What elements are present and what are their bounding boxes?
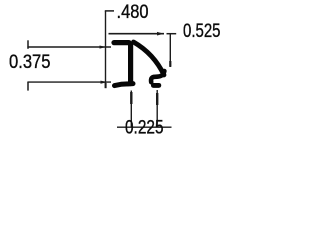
svg-text:0.525: 0.525 <box>183 21 221 42</box>
0.375 bottom dimension line <box>27 81 111 83</box>
extension line bottom right <box>156 90 158 127</box>
0.375 top tick <box>27 40 29 49</box>
bottom dimension line <box>117 126 172 128</box>
profile: hook foot <box>153 83 158 88</box>
profile: top flange <box>114 40 129 45</box>
svg-text:.480: .480 <box>117 2 149 23</box>
leader tail end <box>105 83 107 88</box>
leader line for .480 dimension <box>105 11 114 88</box>
0.375 top dimension line <box>27 46 111 48</box>
arrowhead on 0.525 dimension line <box>157 32 164 36</box>
extension line bottom left <box>130 91 132 127</box>
svg-text:0.375: 0.375 <box>9 52 51 73</box>
extension line 0.525 <box>169 34 171 67</box>
profile: hook curl at arc end <box>151 71 164 82</box>
arrowhead on 0.375 bottom line <box>101 81 108 84</box>
arrowhead on 0.375 top line <box>100 46 107 49</box>
arrowhead bottom of 0.525 extension <box>169 61 171 67</box>
dimension line 0.525 <box>109 33 177 35</box>
svg-text:0.225: 0.225 <box>125 117 164 138</box>
0.375 bottom tick <box>27 82 29 91</box>
profile: vertical stem <box>128 44 133 84</box>
profile: curved face arc <box>134 42 165 75</box>
profile: stem foot <box>115 84 134 86</box>
